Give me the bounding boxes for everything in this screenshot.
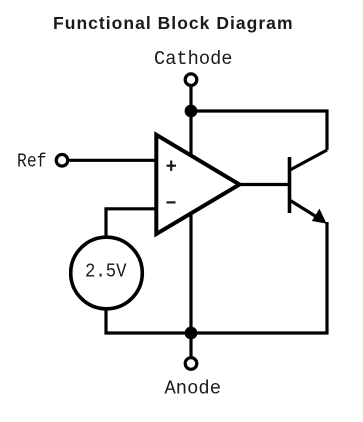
wire emitter rail down right side (325, 222, 328, 335)
wire inverting input to 2.5V reference (106, 209, 158, 238)
wire collector diagonal (289, 150, 327, 171)
terminal cathode circle (185, 74, 197, 86)
op-amp minus sign (167, 201, 176, 203)
op-amp plus sign (167, 161, 177, 171)
svg-text:Functional Block Diagram: Functional Block Diagram (53, 13, 293, 33)
wire Ref input (68, 159, 158, 162)
wire base from op-amp output (239, 183, 290, 186)
svg-text:Cathode: Cathode (154, 48, 233, 70)
junction dot cathode node (185, 105, 198, 118)
wire top rail to collector (191, 111, 327, 150)
transistor Q1 emitter with arrow (290, 200, 321, 219)
terminal anode circle (185, 358, 197, 370)
transistor Q1 base bar (288, 157, 292, 213)
op-amp U1 (156, 135, 239, 234)
voltage source V1 2.5V circle (71, 237, 143, 309)
svg-text:2.5V: 2.5V (85, 261, 127, 283)
wire 2.5V reference to bottom rail (104, 308, 107, 335)
wire bottom rail (105, 331, 329, 334)
svg-text:Ref: Ref (17, 151, 47, 173)
wire anode stub (189, 333, 192, 357)
terminal ref circle (56, 155, 68, 167)
wire cathode terminal to junction (189, 85, 192, 111)
svg-text:Anode: Anode (165, 378, 222, 400)
wire main vertical rail (behind op-amp) (189, 111, 192, 333)
junction dot anode node (185, 327, 198, 340)
